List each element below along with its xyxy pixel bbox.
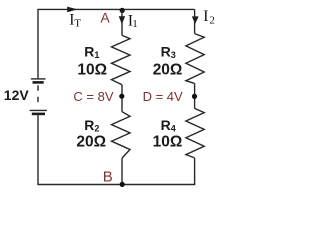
svg-text:2: 2 xyxy=(209,15,215,27)
svg-text:R: R xyxy=(84,44,94,60)
battery B1 12V: top cell long plate xyxy=(31,78,46,80)
arrow IT on top wire xyxy=(67,7,77,13)
svg-text:3: 3 xyxy=(171,50,176,60)
svg-text:C = 8V: C = 8V xyxy=(73,89,113,104)
wire branch1 top (A to R1) xyxy=(121,10,123,35)
svg-text:20Ω: 20Ω xyxy=(153,61,183,78)
node B dot xyxy=(120,182,125,187)
svg-text:10Ω: 10Ω xyxy=(77,61,107,78)
label I1 xyxy=(128,13,138,30)
battery B1: bottom cell long plate xyxy=(30,109,47,111)
wire branch1 bottom (R2 to B) xyxy=(121,158,123,184)
battery B1: dashed middle (omitted cells) xyxy=(37,85,39,108)
svg-text:R: R xyxy=(161,44,171,60)
svg-text:T: T xyxy=(74,18,81,30)
resistor R1 zigzag xyxy=(112,35,131,84)
wire top xyxy=(37,8,194,10)
label R2 xyxy=(84,117,99,134)
svg-text:R: R xyxy=(161,117,171,133)
label I2 xyxy=(203,8,215,27)
svg-text:B: B xyxy=(103,168,113,185)
wire left lower (battery bottom lead) xyxy=(37,115,39,184)
label IT xyxy=(69,11,81,29)
svg-text:4: 4 xyxy=(171,123,176,133)
wire branch2 top (corner to R3) xyxy=(194,9,196,33)
svg-text:I: I xyxy=(203,8,208,25)
battery B1: top cell short thick plate xyxy=(33,81,44,84)
wire branch2 mid (R3 to D to R4) xyxy=(194,83,196,108)
resistor R2 zigzag xyxy=(112,112,131,158)
battery B1: bottom cell short thick plate xyxy=(32,113,45,116)
arrow I2 xyxy=(192,16,199,24)
wire branch2 bottom (R4 to bottom wire) xyxy=(194,158,196,185)
svg-text:2: 2 xyxy=(94,123,99,133)
label R4 xyxy=(161,117,176,134)
resistor R4 zigzag xyxy=(186,108,204,157)
wire branch1 mid (R1 to C to R2) xyxy=(121,85,123,112)
svg-text:R: R xyxy=(84,117,94,133)
arrow I1 xyxy=(119,16,125,24)
svg-text:A: A xyxy=(100,9,110,25)
node A dot xyxy=(120,8,125,13)
svg-text:20Ω: 20Ω xyxy=(76,133,106,150)
svg-text:1: 1 xyxy=(94,50,99,60)
label R1 xyxy=(84,44,99,61)
node D dot xyxy=(192,94,197,99)
svg-text:10Ω: 10Ω xyxy=(153,133,183,150)
svg-text:1: 1 xyxy=(132,18,138,30)
label R3 xyxy=(161,44,176,61)
svg-text:D = 4V: D = 4V xyxy=(143,89,183,104)
wire bottom xyxy=(37,184,195,186)
svg-text:12V: 12V xyxy=(4,87,30,103)
node C dot xyxy=(119,94,124,99)
wire left upper (battery top lead) xyxy=(37,9,39,78)
resistor R3 zigzag xyxy=(186,34,204,84)
